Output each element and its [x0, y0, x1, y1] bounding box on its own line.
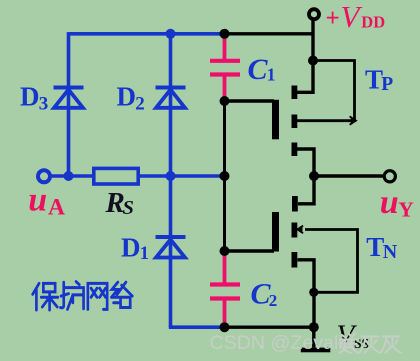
svg-text:T: T: [366, 232, 384, 262]
input terminal circle: [38, 170, 50, 182]
wire: NMOS body lead with arrow: [305, 230, 358, 293]
capacitor C2: [210, 251, 240, 327]
node: D2 branch / top rail junction: [166, 29, 176, 39]
wire: NMOS drain lead: [298, 176, 314, 204]
wire: bottom blue wire to C2 node: [169, 325, 225, 329]
svg-text:+: +: [326, 5, 340, 32]
svg-text:A: A: [48, 195, 65, 221]
transistor TN (NMOS): [225, 176, 358, 327]
diode D3: [54, 88, 84, 108]
wire: left vertical branch through D3: [67, 32, 71, 176]
node: D3 branch / input wire junction: [64, 171, 74, 181]
node: C2 bottom / VSS rail junction: [220, 322, 230, 332]
PMOS channel bars: [292, 86, 298, 100]
node: C1 bottom / PMOS gate junction: [220, 96, 230, 106]
watermark CSDN @Zevalin爱灰灰: [210, 332, 402, 354]
wire: VSS stem: [312, 327, 315, 347]
node: C1 top / VDD rail junction: [220, 29, 230, 39]
wire: D1 branch vertical down: [169, 176, 173, 327]
label 保护网络 (hand-drawn strokes): [33, 282, 133, 310]
wire: PMOS drain lead: [297, 149, 314, 176]
node: input / gate tie junction: [220, 171, 230, 181]
svg-text:D: D: [117, 82, 137, 112]
PMOS body arrow: [351, 118, 356, 123]
wire: D2 branch vertical: [169, 34, 173, 176]
wire: output wire: [314, 174, 384, 177]
wire: top blue rail from D3 branch to C1 node: [69, 32, 225, 36]
svg-text:1: 1: [140, 244, 149, 264]
wire: input horizontal line: [51, 174, 225, 178]
svg-text:V: V: [341, 0, 363, 34]
svg-text:D: D: [20, 82, 40, 112]
svg-text:u: u: [380, 184, 399, 221]
svg-text:3: 3: [39, 94, 49, 115]
terminal output circle: [384, 171, 395, 182]
diode D1: [156, 237, 186, 258]
NMOS channel bars: [292, 196, 298, 212]
svg-text:CSDN @Zevalin: CSDN @Zevalin: [210, 332, 354, 354]
terminal +VDD circle: [309, 9, 319, 19]
svg-text:P: P: [381, 74, 393, 95]
wire: bottom black rail: [225, 326, 314, 329]
watermark char 灰: [360, 337, 379, 353]
char 络: [111, 282, 119, 303]
svg-text:u: u: [28, 182, 47, 219]
svg-text:2: 2: [135, 94, 145, 115]
NMOS gate bar: [272, 212, 279, 252]
resistor RS: [94, 168, 138, 184]
wire: black top rail to VDD: [225, 32, 314, 35]
svg-text:2: 2: [269, 291, 278, 310]
wire: PMOS gate lead: [225, 99, 275, 102]
wire: black gate tie vertical: [223, 101, 226, 251]
char 网: [88, 283, 107, 309]
wire: NMOS gate lead: [225, 249, 275, 252]
wire: PMOS source lead: [297, 61, 313, 93]
NMOS body arrow: [297, 227, 302, 232]
wire: VDD stem: [311, 21, 314, 61]
svg-text:C: C: [248, 53, 269, 86]
svg-text:Y: Y: [398, 198, 414, 222]
svg-text:D: D: [121, 233, 141, 263]
diode D2: [156, 88, 186, 108]
svg-text:S: S: [123, 197, 134, 219]
wire: PMOS body tie: [313, 61, 355, 121]
transistor TP (PMOS): [225, 61, 355, 177]
node: output junction dot: [309, 171, 319, 181]
wire: NMOS source lead: [298, 260, 315, 327]
node: bottom rail junction dot: [309, 322, 319, 332]
svg-text:N: N: [383, 241, 398, 263]
watermark char 爱: [342, 333, 355, 338]
svg-text:DD: DD: [361, 12, 385, 31]
capacitor C1: [210, 34, 240, 101]
node: NMOS body-source junction dot: [309, 288, 318, 297]
PMOS gate bar: [272, 100, 279, 140]
wire: PMOS body lead with arrow: [297, 119, 351, 122]
node: D2-D1 branch / input wire junction: [166, 171, 176, 181]
node: C2 top / NMOS gate junction: [220, 246, 230, 256]
VSS terminal bar: [301, 348, 331, 353]
char 保: [33, 283, 39, 310]
watermark char 灰: [381, 337, 400, 353]
svg-text:1: 1: [267, 64, 276, 84]
node: VDD junction dot: [308, 56, 318, 66]
char 护: [61, 282, 74, 308]
